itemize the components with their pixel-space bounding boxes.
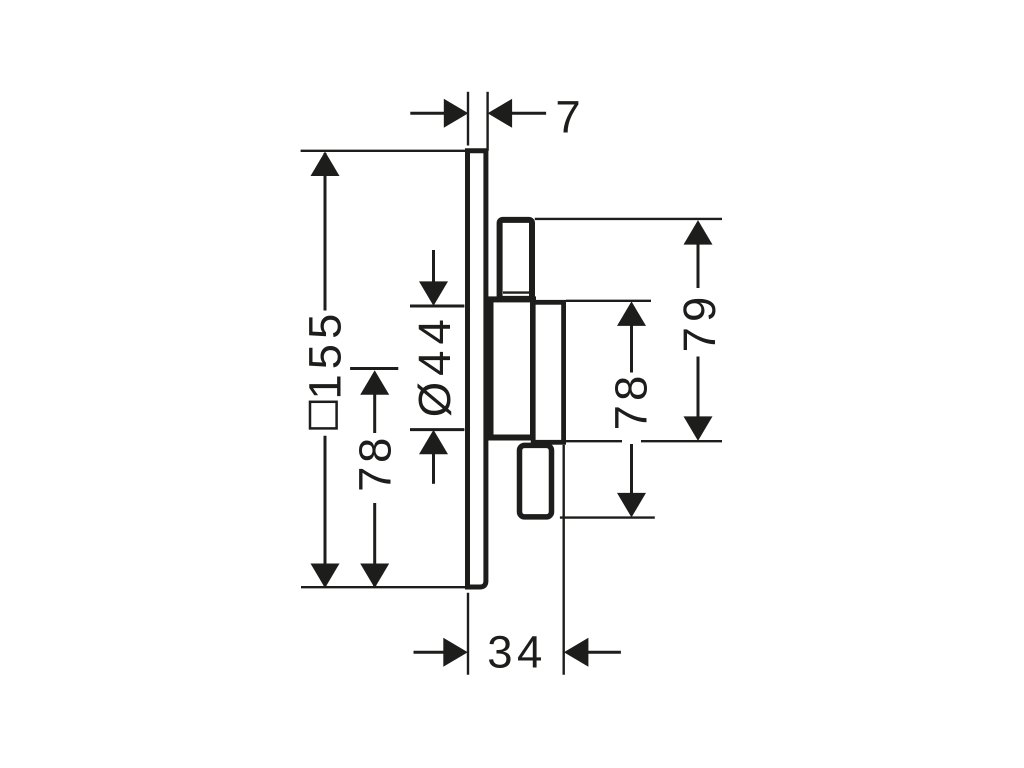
svg-text:34: 34: [487, 626, 547, 677]
svg-text:Ø44: Ø44: [409, 313, 460, 417]
svg-text:78: 78: [350, 434, 401, 492]
svg-text:79: 79: [674, 292, 725, 353]
svg-text:7: 7: [555, 91, 580, 142]
svg-text:78: 78: [606, 372, 657, 431]
svg-text:155: 155: [300, 309, 351, 400]
